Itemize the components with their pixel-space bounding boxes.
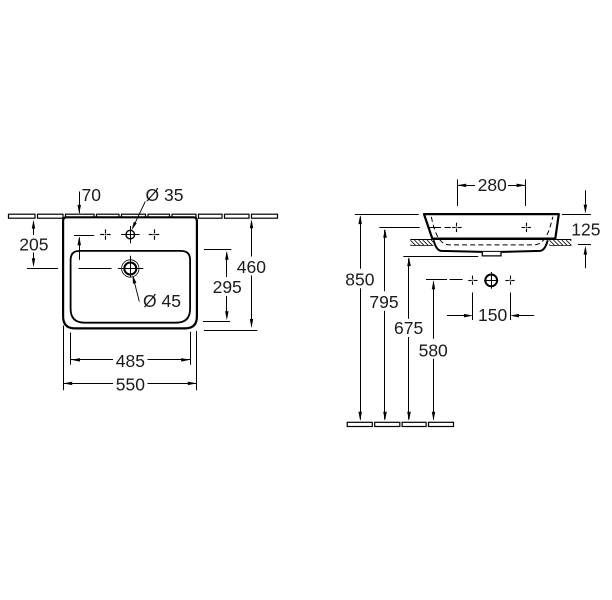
svg-text:280: 280 (478, 175, 507, 195)
drain pipe circle (elevation) (484, 272, 498, 289)
dimension 485 (inner width) (71, 332, 191, 365)
leader Ø45 (134, 279, 140, 302)
drain hole Ø45 (plan view) (118, 256, 144, 278)
svg-text:485: 485 (116, 351, 145, 371)
tap hole cross left (100, 229, 110, 239)
tap hole circle Ø35 (121, 226, 139, 243)
dimension 295 (inner bowl depth) (203, 250, 231, 322)
drain centerline tick left (79, 268, 112, 270)
washbasin inner bowl (plan view) (71, 251, 191, 323)
svg-text:Ø 35: Ø 35 (146, 185, 184, 205)
dimension 550 (outer width) (63, 326, 197, 391)
svg-text:460: 460 (237, 257, 266, 277)
svg-text:150: 150 (478, 305, 507, 325)
dimension 675 (underside height) (403, 257, 478, 420)
leader Ø35 (133, 202, 145, 228)
svg-text:205: 205 (19, 234, 48, 254)
wall section strip (plan view, top) (9, 214, 278, 218)
fixing hole cross right (elevation) (505, 276, 514, 285)
floor line strip (347, 422, 453, 426)
dimension 850 (rim height above floor) (355, 215, 419, 420)
tap hole centerline tick (74, 235, 94, 237)
tap hole cross right (elevation) (522, 223, 531, 232)
tap hole cross right (149, 229, 159, 239)
dimension 125 (rim height) (562, 190, 591, 268)
basin body (front elevation) (424, 214, 559, 239)
basin underside (434, 240, 548, 252)
washbasin outer rim (plan view) (63, 217, 197, 328)
svg-text:675: 675 (394, 318, 423, 338)
wall hatch right (550, 240, 572, 246)
drain trap notch (482, 252, 501, 256)
svg-text:795: 795 (369, 292, 398, 312)
dimension 70 (wall to tap centerline) (79, 192, 81, 260)
svg-text:550: 550 (116, 374, 145, 394)
svg-text:70: 70 (82, 185, 102, 205)
hidden bowl profile (dashed) (431, 217, 553, 245)
tap hole cross left (elevation) (452, 223, 461, 232)
dimension 150 (fixing hole spacing) (447, 293, 534, 321)
wall mounting line (410, 239, 571, 241)
svg-text:125: 125 (571, 220, 600, 240)
svg-text:Ø 45: Ø 45 (143, 291, 181, 311)
dimension 205 (wall to drain centerline) (27, 223, 58, 269)
wall hatch left (411, 240, 434, 246)
dimension 460 (basin depth) (204, 223, 257, 331)
tap centerline dashes (elevation) (428, 227, 451, 229)
dimension 580 (drain height) (426, 280, 447, 420)
svg-text:295: 295 (213, 277, 242, 297)
fixing hole cross left (elevation) (468, 276, 477, 285)
svg-text:850: 850 (345, 270, 374, 290)
drain centerline (elevation) (450, 279, 463, 281)
svg-text:580: 580 (419, 341, 448, 361)
dimension 795 (tap line height) (379, 228, 419, 420)
dimension 280 (tap hole spacing) (457, 179, 525, 206)
